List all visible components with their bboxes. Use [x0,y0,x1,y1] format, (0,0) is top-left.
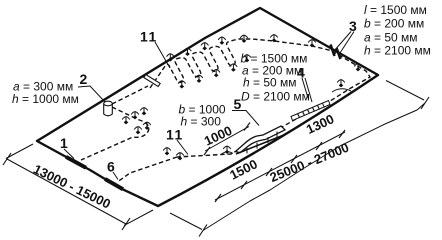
svg-text:2: 2 [80,71,88,87]
svg-text:1: 1 [60,135,68,151]
svg-text:11: 11 [140,29,158,45]
svg-text:b = 200 мм: b = 200 мм [364,17,424,31]
svg-text:h = 50 мм: h = 50 мм [243,76,297,90]
svg-text:a = 50 мм: a = 50 мм [364,31,418,45]
svg-text:6: 6 [107,159,115,175]
svg-text:h = 1000 мм: h = 1000 мм [12,92,79,106]
svg-text:3: 3 [349,18,357,34]
svg-text:4: 4 [297,65,305,81]
svg-text:h = 300: h = 300 [181,115,222,129]
svg-text:l = 1500 мм: l = 1500 мм [364,3,427,17]
svg-text:D = 2100 мм: D = 2100 мм [241,90,310,104]
svg-text:h = 2100 мм: h = 2100 мм [364,44,431,58]
svg-text:5: 5 [234,96,242,112]
svg-text:11: 11 [166,127,184,143]
